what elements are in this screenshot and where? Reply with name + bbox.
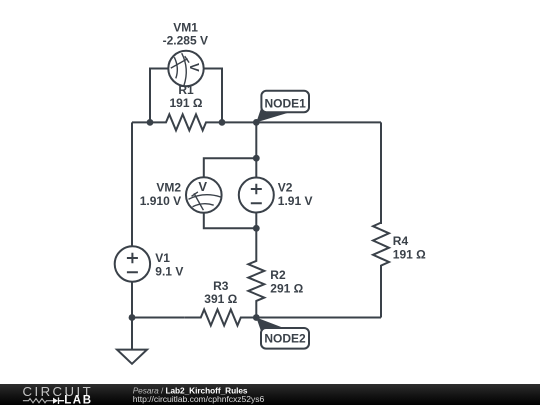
label R2 value xyxy=(270,268,303,295)
wire left rail upper xyxy=(131,122,133,246)
wire top middle segment xyxy=(222,121,256,123)
wire right rail lower xyxy=(380,280,382,318)
node label NODE1 xyxy=(256,91,309,123)
node junction dot xyxy=(147,119,154,126)
wire top-left segment xyxy=(132,121,150,123)
svg-text:191 Ω: 191 Ω xyxy=(393,247,426,261)
label R1 value xyxy=(170,83,203,110)
node junction dot xyxy=(253,225,260,232)
svg-text:LAB: LAB xyxy=(64,395,92,405)
resistor R1 xyxy=(150,114,222,130)
footer CircuitLab logo xyxy=(23,384,94,405)
svg-text:191 Ω: 191 Ω xyxy=(170,96,203,110)
wire VM2 bottom lead xyxy=(204,213,256,229)
node junction dot xyxy=(253,155,260,162)
resistor R3 xyxy=(185,310,256,326)
label V2 value xyxy=(278,181,313,208)
node label NODE2 xyxy=(256,318,309,349)
label VM1 value xyxy=(163,21,208,48)
svg-text:NODE1: NODE1 xyxy=(265,97,307,111)
voltage source V2 xyxy=(239,178,274,213)
svg-text:R2: R2 xyxy=(270,268,286,282)
label VM2 value xyxy=(140,181,182,208)
svg-text:V2: V2 xyxy=(278,181,293,195)
label V1 value xyxy=(155,251,183,278)
wire bottom left segment xyxy=(132,317,185,319)
svg-text:VM2: VM2 xyxy=(156,181,181,195)
wire V2 bottom lead xyxy=(255,213,257,229)
wire bottom right segment xyxy=(256,317,381,319)
svg-text:R1: R1 xyxy=(178,83,194,97)
svg-text:1.910 V: 1.910 V xyxy=(140,194,181,208)
wire VM1 right lead xyxy=(204,69,222,123)
svg-text:NODE2: NODE2 xyxy=(264,332,306,346)
wire right rail upper xyxy=(380,122,382,224)
svg-text:-2.285 V: -2.285 V xyxy=(163,34,208,48)
svg-text:V: V xyxy=(198,179,207,194)
voltmeter VM1 xyxy=(168,51,203,86)
svg-text:V1: V1 xyxy=(155,251,170,265)
wire top right segment xyxy=(256,121,381,123)
svg-text:VM1: VM1 xyxy=(173,21,198,35)
voltmeter VM2 xyxy=(186,177,222,213)
label R4 value xyxy=(393,234,426,261)
footer bar xyxy=(0,384,540,405)
node junction dot xyxy=(129,314,136,321)
resistor R4 xyxy=(373,208,389,280)
svg-text:V: V xyxy=(187,63,202,72)
wire left rail lower xyxy=(131,282,133,318)
svg-text:391 Ω: 391 Ω xyxy=(204,292,237,306)
svg-text:291 Ω: 291 Ω xyxy=(270,281,303,295)
wire node1 to middle junction xyxy=(255,122,257,158)
node NODE1 junction dot xyxy=(253,119,260,126)
svg-text:1.91 V: 1.91 V xyxy=(278,194,313,208)
svg-text:9.1 V: 9.1 V xyxy=(155,265,183,279)
node junction dot xyxy=(219,119,226,126)
svg-text:R4: R4 xyxy=(393,234,409,248)
wire VM1 left lead xyxy=(150,69,168,123)
node NODE2 junction dot xyxy=(253,314,260,321)
wire V2 top lead xyxy=(255,158,257,177)
wire to VM2 top xyxy=(204,158,256,177)
ground xyxy=(117,318,147,364)
label R3 value xyxy=(204,279,237,306)
resistor R2 xyxy=(248,228,264,317)
svg-text:http://circuitlab.com/cphnfcxz: http://circuitlab.com/cphnfcxz52ys6 xyxy=(133,394,265,404)
voltage source V1 xyxy=(115,246,150,281)
svg-text:R3: R3 xyxy=(213,279,229,293)
